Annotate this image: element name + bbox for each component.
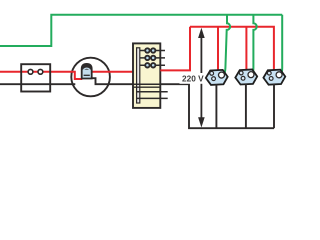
wire: black step inside meter, out to panel [92,78,133,84]
svg-text:220 V: 220 V [182,74,204,84]
socket 3 body [263,69,286,85]
meter dome inner arc highlight [83,68,90,69]
fuse circle row2 col1 [145,56,149,60]
dimension arrow 220V double-headed [198,28,205,128]
panel: inner line below neutral [134,86,160,88]
wire: black drop socket 2 to bus [245,84,247,128]
wire: red live from supply, left segment [0,71,75,73]
fuse circle row3 col2 [151,63,155,67]
wire: red step inside meter [71,72,83,79]
panel: lower stub line b [137,97,168,99]
panel: fuse row line 3 [140,64,165,66]
wire: red out of meter to panel [92,71,133,73]
wire: red from panel up to top bus [160,27,190,71]
socket 2 body [235,69,258,85]
fuse circle row1 col2 [151,48,155,52]
wire: green drop to socket 1 with hop over red bus [224,15,230,75]
wire: green drop to socket 3 [281,15,283,75]
wire: black neutral from supply, left segment [0,83,75,85]
panel: fuse row line 1 [140,50,165,52]
fuse circle row3 col1 [145,63,149,67]
panel: distribution board body [133,43,160,108]
meter dome base line [84,74,90,76]
terminal circle 2 on red wire [38,69,43,74]
wire: black neutral from panel to bottom bus [160,84,274,128]
terminal circle 1 on red wire [28,69,33,74]
meter: circle outline [71,58,110,97]
wire: green drop to socket 2 with hop over red bus [252,15,256,75]
label 220 V [180,73,205,84]
box: supply terminal box [21,64,50,91]
panel: lower stub line a [137,91,168,93]
wire: red drop to socket 1 [217,27,219,71]
socket 1 body [205,70,228,86]
wire: black drop socket 3 to bus [273,84,275,128]
wire: black drop socket 1 to bus [215,84,217,128]
wire: red drop to socket 2 [245,27,247,70]
wire: green earth, left segment from supply [0,15,282,46]
meter dome body [82,64,92,79]
panel: fuse row line 2 [140,57,165,59]
meter dome dark cap [82,64,92,70]
panel: neutral crossing line inside [133,83,160,85]
fuse circle row2 col2 [151,56,155,60]
fuse circle row1 col1 [145,48,149,52]
wire: red top bus [190,27,274,70]
panel: vertical busbar [137,48,140,103]
